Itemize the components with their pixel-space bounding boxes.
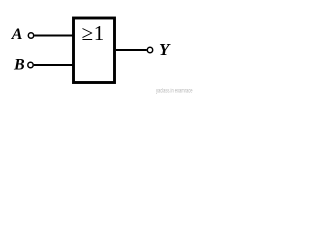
svg-text:≥1: ≥1 (82, 21, 105, 45)
input terminal A (28, 33, 33, 38)
output terminal Y (147, 47, 152, 52)
svg-text:A: A (11, 26, 23, 43)
input terminal B (28, 62, 33, 67)
wire B (34, 64, 73, 66)
wire A (34, 35, 73, 37)
svg-text:yaclass.in examrace: yaclass.in examrace (156, 88, 193, 95)
svg-text:B: B (13, 56, 25, 73)
svg-text:Y: Y (159, 40, 171, 59)
output wire (116, 49, 147, 51)
OR gate U1 (IEC symbol) (74, 18, 115, 83)
